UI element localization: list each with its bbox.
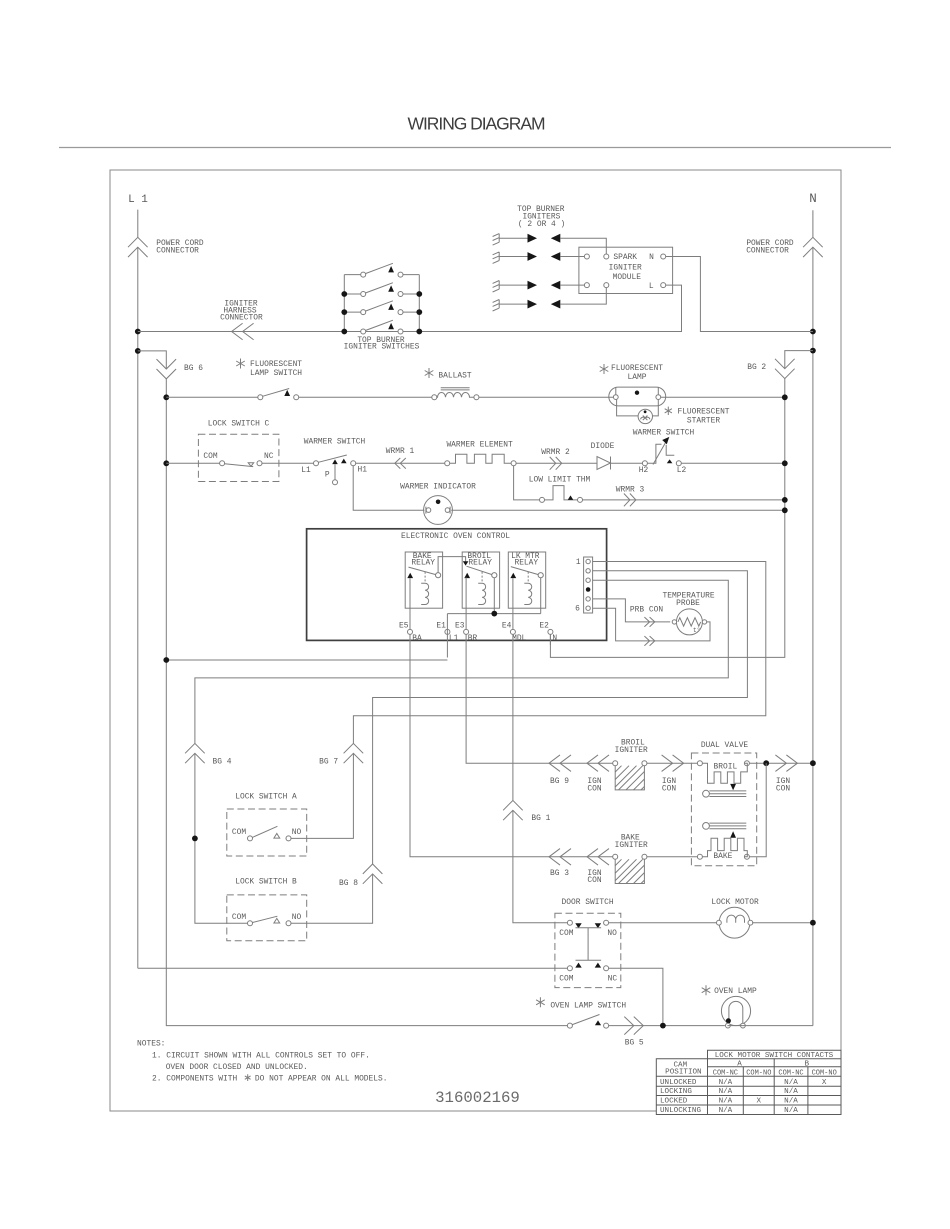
lock motor switch contacts table — [656, 1050, 841, 1114]
svg-text:FLUORESCENT: FLUORESCENT — [677, 407, 729, 416]
lock switch C COM contact — [220, 461, 225, 466]
junction igniter switch rail right — [416, 309, 422, 315]
svg-text:CON: CON — [587, 785, 601, 794]
wire igniter row4 to module — [560, 288, 606, 305]
svg-text:OVEN LAMP SWITCH: OVEN LAMP SWITCH — [550, 1001, 626, 1010]
wire door switch NC to oven lamp line — [609, 968, 663, 1025]
top burner igniter switch 3 — [361, 310, 366, 315]
wire lamp to N feeder — [661, 396, 785, 398]
wire igniter row3 to module — [560, 284, 584, 286]
svg-text:E5: E5 — [399, 621, 409, 630]
svg-text:NO: NO — [607, 929, 617, 938]
connector BG 7 — [344, 743, 364, 763]
wire broil relay contact to L1 contact bus — [493, 578, 495, 614]
svg-text:X: X — [822, 1079, 827, 1087]
wire pin2 to lock switch B NO (via BG8) — [291, 571, 747, 924]
junction lock motor N — [810, 920, 816, 926]
wire E4 vertical stub — [512, 634, 514, 645]
svg-text:BA: BA — [412, 634, 422, 643]
wire warmer indicator to N feeder — [451, 509, 785, 511]
svg-text:DOOR SWITCH: DOOR SWITCH — [562, 898, 614, 907]
svg-text:COM-NC: COM-NC — [713, 1070, 738, 1078]
door switch lower COM contact — [567, 966, 572, 971]
wire lock motor relay contact down — [540, 578, 542, 614]
junction igniter switch rail left — [341, 329, 347, 335]
wire pin1 to lock switch A NO (via BG7) — [291, 562, 766, 839]
svg-text:WRMR 3: WRMR 3 — [616, 485, 645, 494]
lock motor relay K3 — [508, 552, 545, 608]
svg-text:N/A: N/A — [784, 1079, 798, 1087]
junction igniter switch rail left — [341, 291, 347, 297]
junction igniter switch rail right — [416, 329, 422, 335]
svg-text:A: A — [737, 1060, 742, 1068]
svg-text:L1: L1 — [301, 466, 311, 475]
svg-text:P: P — [325, 470, 330, 479]
svg-text:COM: COM — [559, 975, 573, 984]
junction L1 BG6 branch — [135, 348, 141, 354]
svg-text:STARTER: STARTER — [687, 416, 720, 425]
disconnect WRMR 1 — [395, 458, 406, 469]
disconnect WRMR 2 — [550, 457, 562, 470]
lock switch C box — [198, 434, 279, 481]
svg-text:1: 1 — [576, 558, 581, 567]
svg-text:COM-NO: COM-NO — [812, 1070, 837, 1078]
wire L1 vertical upper — [137, 210, 139, 969]
connector IGN CON (broil left) — [587, 755, 609, 772]
wire E5 vertical stub — [409, 634, 411, 645]
wire bake relay contact to broil relay pivot — [438, 557, 466, 573]
junction igniter switch rail left — [341, 309, 347, 315]
svg-text:NOTES:: NOTES: — [137, 1039, 165, 1048]
svg-text:t°: t° — [693, 627, 700, 634]
wire warmer line segments — [166, 462, 644, 464]
svg-text:LOW LIMIT THM: LOW LIMIT THM — [529, 475, 591, 484]
dual valve box — [691, 753, 756, 866]
connector BG 9 — [549, 755, 571, 772]
svg-text:BR: BR — [468, 634, 478, 643]
svg-text:LOCK MOTOR: LOCK MOTOR — [711, 898, 759, 907]
connector BG 6 — [157, 359, 177, 379]
EOC connector pin 5 — [586, 597, 590, 601]
wire module N to N bus — [666, 257, 813, 332]
svg-text:UNLOCKED: UNLOCKED — [660, 1079, 697, 1087]
top burner igniter 2 spark gap — [499, 256, 527, 258]
svg-text:316002169: 316002169 — [435, 1089, 520, 1107]
lock switch A NO contact — [286, 836, 291, 841]
ballast — [425, 368, 434, 378]
svg-text:LAMP SWITCH: LAMP SWITCH — [250, 369, 302, 378]
wire E1 to L1 feeder — [166, 659, 447, 661]
junction E1 L1 feeder — [163, 657, 169, 663]
top burner igniter switches rails — [344, 275, 419, 332]
door switch upper NO contact — [604, 920, 609, 925]
svg-text:RELAY: RELAY — [411, 558, 435, 567]
door switch upper COM contact — [567, 920, 572, 925]
svg-text:POSITION: POSITION — [665, 1069, 701, 1077]
svg-text:BG 5: BG 5 — [625, 1039, 644, 1048]
svg-text:E2: E2 — [539, 621, 549, 630]
svg-text:FLUORESCENT: FLUORESCENT — [611, 364, 663, 373]
svg-text:LOCK SWITCH A: LOCK SWITCH A — [235, 792, 297, 801]
svg-text:N/A: N/A — [719, 1079, 733, 1087]
top burner igniter switch 4 — [361, 329, 366, 334]
top burner igniter switch row 3 wire — [344, 311, 419, 313]
svg-text:H2: H2 — [639, 466, 649, 475]
top burner igniter switch 2 — [361, 292, 366, 297]
svg-text:N/A: N/A — [784, 1098, 798, 1106]
svg-text:NO: NO — [292, 828, 302, 837]
svg-text:BAKE: BAKE — [713, 852, 732, 861]
svg-text:NC: NC — [264, 452, 274, 461]
svg-text:IGNITER: IGNITER — [615, 746, 648, 755]
svg-text:LOCKED: LOCKED — [660, 1098, 688, 1106]
svg-text:BG 1: BG 1 — [531, 814, 550, 823]
wire valve bake to junction — [749, 763, 766, 857]
svg-text:N: N — [809, 192, 817, 206]
fluorescent starter — [638, 409, 652, 423]
svg-text:BG 9: BG 9 — [550, 777, 569, 786]
wire L1 feeder vertical (BG6 to oven lamp switch) — [166, 378, 567, 1025]
svg-text:6: 6 — [575, 605, 580, 614]
junction warmer feed — [163, 460, 169, 466]
wire pin5 to probe connector — [593, 599, 671, 622]
wire E3 to broil igniter — [466, 645, 613, 763]
svg-text:N/A: N/A — [719, 1107, 733, 1115]
power cord connector N — [803, 237, 823, 257]
connector BG 1 — [503, 800, 523, 820]
wire lock relay arm to E4 — [512, 578, 514, 629]
svg-text:IGNITER: IGNITER — [615, 841, 648, 850]
svg-text:BALLAST: BALLAST — [438, 372, 471, 381]
connector IGN CON (broil right) — [662, 755, 684, 772]
svg-text:H1: H1 — [358, 465, 368, 474]
wire pin6 to probe return — [593, 608, 710, 641]
svg-text:PRB CON: PRB CON — [630, 605, 663, 614]
svg-text:OVEN DOOR CLOSED AND UNLOCKED.: OVEN DOOR CLOSED AND UNLOCKED. — [166, 1063, 308, 1072]
fluorescent lamp switch — [258, 395, 263, 400]
svg-text:CONNECTOR: CONNECTOR — [220, 313, 263, 322]
svg-text:MODULE: MODULE — [613, 273, 642, 282]
wire E3 vertical stub — [465, 634, 467, 645]
svg-text:WARMER SWITCH: WARMER SWITCH — [633, 428, 695, 437]
fluorescent lamp — [609, 387, 666, 406]
wire BG5 to oven lamp — [609, 1025, 725, 1027]
lock switch C blade — [225, 464, 254, 467]
svg-text:RELAY: RELAY — [514, 558, 538, 567]
svg-text:E1: E1 — [436, 621, 446, 630]
junction lock switch A COM — [192, 836, 198, 842]
warmer element — [445, 461, 450, 466]
top burner igniter 1 spark gap — [499, 237, 527, 239]
warmer switch P terminal — [334, 464, 336, 480]
wire pin3 to lock switch A COM (via BG4) — [195, 580, 728, 923]
svg-text:ELECTRONIC OVEN CONTROL: ELECTRONIC OVEN CONTROL — [401, 532, 510, 541]
oven lamp E3 — [702, 985, 711, 995]
wire broil igniter to valve — [647, 762, 698, 764]
door switch actuator — [576, 928, 602, 961]
svg-text:B: B — [805, 1060, 810, 1068]
top burner igniter 3 electrode — [493, 281, 500, 293]
electronic oven control box — [307, 529, 607, 641]
wire bake relay arm to E5 — [409, 578, 411, 629]
svg-text:BG 6: BG 6 — [184, 364, 203, 373]
junction warmer N — [782, 460, 788, 466]
svg-text:E4: E4 — [502, 621, 512, 630]
wire fluorescent lamp switch line — [166, 396, 432, 398]
fluorescent starter loop wire — [617, 400, 659, 416]
connector IGN CON (bake left) — [587, 849, 609, 866]
svg-text:COM: COM — [232, 913, 246, 922]
svg-text:IGNITER: IGNITER — [609, 263, 642, 272]
junction lamp N feeder — [782, 394, 788, 400]
svg-text:X: X — [757, 1098, 762, 1106]
wire E1 vertical — [446, 614, 448, 658]
junction low limit N — [782, 497, 788, 503]
wire broil relay arm to E3 — [465, 578, 467, 630]
terminal E3 — [464, 629, 469, 634]
svg-text:N: N — [649, 253, 654, 262]
svg-text:DO NOT APPEAR ON ALL MODELS.: DO NOT APPEAR ON ALL MODELS. — [255, 1074, 388, 1083]
connector BG 8 — [363, 864, 383, 884]
lock switch C NC contact — [257, 461, 262, 466]
svg-text:WIRING DIAGRAM: WIRING DIAGRAM — [408, 114, 545, 134]
wire E2 vertical stub — [549, 634, 551, 645]
top burner igniter 4 spark gap — [499, 303, 527, 305]
wire ballast to lamp — [479, 396, 613, 398]
svg-text:WARMER INDICATOR: WARMER INDICATOR — [400, 482, 476, 491]
dual valve broil solenoid — [697, 761, 702, 766]
svg-text:E3: E3 — [455, 621, 465, 630]
wire oven lamp to N — [727, 1025, 813, 1027]
svg-text:PROBE: PROBE — [676, 599, 700, 608]
svg-text:N/A: N/A — [784, 1088, 798, 1096]
svg-text:COM: COM — [203, 452, 217, 461]
svg-text:RELAY: RELAY — [468, 558, 492, 567]
svg-text:L2: L2 — [677, 466, 687, 475]
svg-text:LOCKING: LOCKING — [660, 1088, 692, 1096]
svg-text:WARMER SWITCH: WARMER SWITCH — [304, 438, 366, 447]
wire igniter row2 to module — [560, 256, 584, 258]
svg-text:UNLOCKING: UNLOCKING — [660, 1107, 701, 1115]
svg-text:OVEN LAMP: OVEN LAMP — [714, 987, 757, 996]
top burner igniter switch 1 — [361, 272, 366, 277]
diagram border frame — [110, 170, 841, 1111]
junction warmer indicator N — [782, 507, 788, 513]
terminal E4 — [510, 629, 515, 634]
svg-text:NC: NC — [608, 975, 618, 984]
svg-text:BG 3: BG 3 — [550, 869, 569, 878]
warmer thermostat adjust arrow — [653, 443, 666, 465]
junction door NC oven lamp line — [660, 1023, 666, 1029]
wire low limit to N feeder — [583, 499, 785, 501]
spark igniter module terminal N — [661, 254, 666, 259]
spark igniter module terminals left — [584, 254, 589, 259]
wire door switch NO to lock motor — [609, 922, 717, 924]
svg-text:CONNECTOR: CONNECTOR — [156, 247, 199, 256]
top burner igniter 4 electrode — [493, 300, 500, 312]
junction L1 bus — [135, 329, 141, 335]
svg-text:FLUORESCENT: FLUORESCENT — [250, 360, 302, 369]
svg-text:BG 7: BG 7 — [319, 758, 338, 767]
svg-text:BROIL: BROIL — [714, 762, 738, 771]
dual valve bake plunger — [703, 823, 710, 830]
svg-text:1. CIRCUIT SHOWN WITH ALL CONT: 1. CIRCUIT SHOWN WITH ALL CONTROLS SET T… — [152, 1051, 370, 1060]
broil relay K2 — [462, 552, 499, 608]
svg-text:WRMR 1: WRMR 1 — [386, 447, 415, 456]
connector BG 5 — [624, 1017, 643, 1035]
wire lock motor to N — [752, 922, 813, 924]
svg-text:( 2 OR 4 ): ( 2 OR 4 ) — [518, 220, 565, 229]
wire L1 bus to spark module L — [138, 285, 682, 331]
dual valve broil plunger — [703, 790, 710, 797]
wire element to low limit thermostat — [514, 466, 540, 500]
svg-text:N/A: N/A — [719, 1098, 733, 1106]
svg-text:BG 2: BG 2 — [747, 363, 766, 372]
svg-text:COM-NC: COM-NC — [778, 1070, 803, 1078]
wire igniter row1 to module — [560, 238, 606, 254]
svg-text:DIODE: DIODE — [591, 442, 615, 451]
lock switch A box — [227, 809, 307, 856]
svg-text:2. COMPONENTS WITH: 2. COMPONENTS WITH — [152, 1074, 237, 1083]
svg-text:LAMP: LAMP — [628, 373, 647, 382]
svg-text:MDL: MDL — [512, 634, 526, 643]
svg-text:N: N — [552, 634, 557, 643]
door switch lower NC contact — [604, 966, 609, 971]
top burner igniter switch row 1 wire — [344, 274, 419, 276]
connector IGN CON (valve right) — [775, 755, 797, 772]
wire L1 to door switch lower COM — [138, 967, 568, 969]
oven lamp switch — [536, 997, 545, 1007]
svg-text:LOCK MOTOR SWITCH CONTACTS: LOCK MOTOR SWITCH CONTACTS — [715, 1052, 834, 1060]
wire bake igniter to valve — [647, 856, 698, 858]
dual valve bake solenoid — [697, 854, 702, 859]
svg-text:L: L — [649, 282, 654, 291]
svg-text:N/A: N/A — [719, 1088, 733, 1096]
door switch lower plungers — [575, 963, 581, 968]
EOC connector pin 3 — [586, 578, 590, 582]
svg-text:COM-NO: COM-NO — [746, 1070, 771, 1078]
svg-text:CON: CON — [587, 876, 601, 885]
disconnect WRMR 3 — [624, 494, 636, 507]
svg-text:L1: L1 — [449, 634, 459, 643]
svg-text:NO: NO — [292, 913, 302, 922]
wire H1 to warmer indicator — [353, 466, 424, 511]
EOC connector pin 1 — [586, 559, 590, 563]
connector BG 2 — [775, 359, 795, 379]
junction N bus top — [810, 329, 816, 335]
junction igniter switch rail right — [416, 291, 422, 297]
junction N BG2 branch — [810, 348, 816, 354]
terminal E2 — [548, 629, 553, 634]
EOC connector pin 4 (filled) — [586, 587, 591, 592]
svg-text:CONNECTOR: CONNECTOR — [746, 247, 789, 256]
wire L1 contact bus — [447, 613, 540, 615]
junction broil contact bus — [491, 611, 497, 617]
wire BG2 branch upper — [785, 351, 813, 369]
door switch box — [555, 913, 621, 987]
title rule — [59, 147, 891, 149]
wire N vertical — [812, 210, 814, 1025]
svg-text:N/A: N/A — [784, 1107, 798, 1115]
spark igniter module U1 box — [579, 247, 673, 293]
junction broil N bus — [810, 760, 816, 766]
EOC connector pin 2 — [586, 569, 590, 573]
terminal E1 — [445, 629, 450, 634]
svg-text:DUAL VALVE: DUAL VALVE — [701, 741, 749, 750]
wire E5 to bake igniter — [410, 645, 613, 857]
svg-text:BG 8: BG 8 — [339, 879, 358, 888]
svg-text:COM: COM — [559, 929, 573, 938]
top burner igniter switch row 2 wire — [344, 293, 419, 295]
connector BG 4 — [185, 743, 205, 763]
connector BG 3 — [549, 849, 571, 866]
top burner igniter 1 electrode — [493, 234, 500, 246]
wire valve broil to N — [749, 762, 813, 764]
top burner igniter 2 electrode — [493, 252, 500, 264]
spark igniter module terminal L — [661, 283, 666, 288]
junction fluorescent feed — [163, 394, 169, 400]
terminal E5 — [408, 629, 413, 634]
lock switch A blade — [252, 826, 277, 837]
lock switch B blade — [252, 916, 277, 922]
svg-text:WARMER ELEMENT: WARMER ELEMENT — [446, 441, 513, 450]
bake relay K1 — [405, 552, 442, 608]
svg-text:LOCK SWITCH B: LOCK SWITCH B — [235, 877, 297, 886]
top burner igniter 3 spark gap — [499, 284, 527, 286]
lock switch B box — [227, 895, 307, 941]
svg-text:BG 4: BG 4 — [213, 758, 232, 767]
lock switch A COM contact — [248, 836, 253, 841]
svg-text:L 1: L 1 — [128, 194, 148, 206]
connector igniter harness — [232, 323, 254, 340]
svg-text:LOCK SWITCH C: LOCK SWITCH C — [208, 420, 270, 429]
lock switch B NO contact — [286, 921, 291, 926]
svg-text:COM: COM — [232, 828, 246, 837]
EOC connector pin 6 — [586, 606, 590, 610]
junction valve outputs — [763, 760, 769, 766]
svg-text:IGNITER SWITCHES: IGNITER SWITCHES — [344, 343, 420, 352]
svg-text:WRMR 2: WRMR 2 — [541, 448, 570, 457]
wire N feeder vertical (BG2 to EOC E2) — [550, 378, 784, 657]
wire E4 to door switch COM (via BG1) — [513, 645, 568, 923]
svg-text:CON: CON — [776, 785, 790, 794]
lock switch B COM contact — [248, 921, 253, 926]
door switch upper plungers — [575, 923, 581, 928]
svg-text:CON: CON — [662, 785, 676, 794]
EOC connector strip — [584, 557, 593, 613]
wire BG6 branch upper — [138, 351, 167, 369]
svg-text:SPARK: SPARK — [613, 253, 637, 262]
power cord connector L1 — [128, 237, 148, 257]
